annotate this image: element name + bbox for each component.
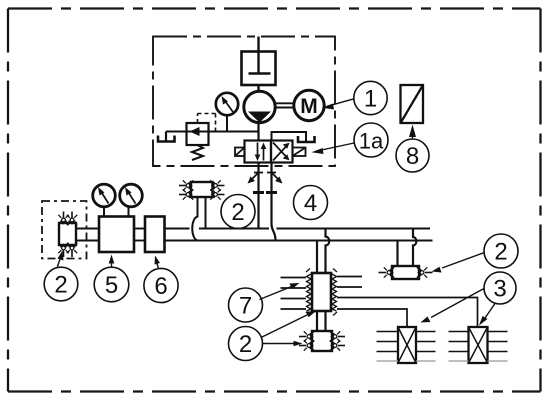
- wire drive shaft: [276, 103, 294, 107]
- wire double line 7 to coupling 2b: [317, 311, 326, 331]
- callout circle 4: [294, 186, 328, 220]
- wire 2t left leg arcing into bottom pipe: [192, 197, 197, 241]
- wire side lines of left cylinder: [377, 332, 436, 352]
- wire branch from top pipe hopping bottom pipe to item 7: [326, 229, 330, 274]
- svg-text:3: 3: [493, 276, 506, 303]
- solenoid right: [293, 148, 306, 157]
- callout circle 2 (right): [432, 234, 519, 273]
- wire branch bottom pipe to coupling 2r: [396, 241, 398, 267]
- drain arrow on line A: [248, 173, 264, 184]
- drain arrow on line B: [267, 173, 283, 184]
- accumulator symbol (item 8): [401, 85, 424, 123]
- star connectors of coupling 2r: [384, 267, 394, 277]
- relief valve RV1: [187, 123, 209, 145]
- wire line A (valve port to top pipe): [257, 163, 259, 229]
- quick coupling 2 (left, vertical): [59, 223, 76, 245]
- pilot line (dashed): [198, 114, 216, 132]
- wire Ga stem: [103, 207, 105, 217]
- wire valve T-port to drain tank: [272, 132, 307, 142]
- power unit enclosure (phantom box): [153, 37, 335, 167]
- wire stubs right of 7 (short): [337, 277, 362, 288]
- callout circle 2 (top): [221, 195, 255, 229]
- svg-text:5: 5: [105, 272, 118, 299]
- wire suction line into tank: [257, 37, 259, 74]
- wire stubs of coupling 2b: [299, 337, 345, 346]
- component 6: [145, 217, 165, 253]
- callout circle 7: [229, 283, 300, 322]
- svg-text:1a: 1a: [359, 129, 384, 154]
- directional valve DV1: [245, 141, 293, 163]
- wire bottom pipe: [76, 240, 433, 242]
- wire side lines of right cylinder: [449, 332, 508, 352]
- wire pump to valve: [257, 123, 259, 141]
- callout circle 1a: [312, 123, 389, 157]
- wire 2t right leg to top pipe: [205, 197, 207, 229]
- tank symbol (valve drain): [298, 136, 315, 142]
- DV1 right-box crossed arrows: [273, 143, 286, 161]
- wire stubs left of 7: [281, 278, 307, 310]
- wire tank to pump: [257, 85, 259, 92]
- svg-text:4: 4: [304, 190, 317, 217]
- callout circle 6: [144, 256, 178, 303]
- wire long line to right cylinder (item 3 right): [337, 298, 478, 328]
- spring of RV1: [192, 145, 203, 160]
- wire stubs above/below coupling 2L: [64, 212, 73, 258]
- zigzag strip right of 7: [332, 274, 337, 311]
- callout circle 5: [94, 255, 129, 302]
- svg-text:2: 2: [231, 199, 244, 226]
- quick coupling 2 (top, above pipes): [191, 182, 213, 197]
- svg-text:M: M: [300, 95, 318, 118]
- svg-text:6: 6: [154, 273, 167, 300]
- star connectors of coupling 2L: [58, 215, 68, 225]
- svg-text:2: 2: [494, 239, 507, 266]
- wire line B (valve port over top pipe into bottom pipe): [272, 163, 276, 241]
- coupling tick on line B: [266, 191, 277, 194]
- motor M1: [294, 90, 324, 120]
- pressure gauge G1: [216, 93, 238, 115]
- svg-text:7: 7: [239, 293, 252, 320]
- coupling tick on line A: [253, 191, 264, 194]
- wire branch from bottom pipe to item 7: [316, 241, 318, 274]
- component 5 (manifold block): [99, 217, 134, 253]
- solenoid left: [235, 148, 245, 157]
- wire drop to tank symbol: [165, 132, 167, 142]
- quick coupling 2 (right): [392, 266, 419, 279]
- wire Gb stem: [128, 207, 130, 217]
- svg-text:2: 2: [239, 331, 252, 358]
- callout circle 3 with two leaders: [421, 272, 517, 326]
- star connectors of coupling 2b: [304, 331, 314, 341]
- svg-text:2: 2: [54, 272, 67, 299]
- callout circle 8: [396, 125, 429, 173]
- dashed enclosure (item 2 left): [42, 201, 87, 259]
- wire line to left cylinder (item 3 left): [337, 309, 407, 327]
- quick coupling 2 (bottom): [312, 331, 332, 351]
- wire gauge stem: [226, 116, 228, 132]
- wire stubs of coupling 2t: [179, 186, 225, 195]
- corner ticks of 7: [306, 269, 337, 316]
- pump P1: [244, 91, 275, 122]
- svg-text:8: 8: [406, 143, 419, 170]
- gauge Gb: [120, 184, 143, 207]
- wire stubs of coupling 2r: [379, 272, 433, 274]
- zigzag strip left of 7: [307, 274, 312, 311]
- wire relief main line: [166, 131, 259, 133]
- wire top pipe: [76, 228, 430, 230]
- callout circle 1: [322, 81, 387, 114]
- star connectors of coupling 2t: [183, 180, 193, 190]
- cylinder item 3 (right): [469, 327, 488, 363]
- svg-text:1: 1: [364, 86, 377, 113]
- wire branch top pipe hopping bottom pipe to coupling 2r: [413, 229, 416, 267]
- tank symbol (relief drain): [158, 136, 175, 142]
- gauge Ga: [93, 184, 116, 207]
- callout circle 2 (left): [44, 251, 78, 301]
- callout circle 2 (bottom) with two leaders: [229, 311, 317, 361]
- component 7 (multi coupling plate): [312, 273, 331, 311]
- reservoir tank T1: [242, 52, 276, 86]
- cylinder item 3 (left): [398, 327, 416, 363]
- DV1 left-box arrows: [258, 143, 264, 161]
